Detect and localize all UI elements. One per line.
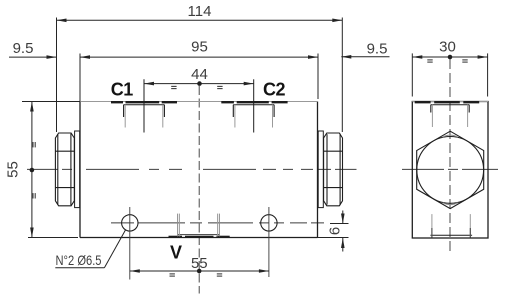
equal mark right [217, 274, 222, 276]
block top surface line [80, 101, 318, 103]
horizontal centerline bottom holes [111, 222, 327, 224]
svg-text:114: 114 [188, 3, 212, 20]
bottom hole right vertical centerline [268, 207, 270, 277]
right hex fitting [324, 133, 343, 206]
vertical centerline block front [198, 86, 200, 294]
side view top port [415, 102, 480, 127]
dimension 9.5 left [9, 40, 57, 59]
bottom hole left vertical centerline [129, 207, 131, 280]
hexagon chamfer arc top [443, 135, 458, 137]
dimension 30 [412, 39, 487, 97]
horizontal centerline side view [402, 168, 498, 170]
svg-text:N°2 Ø6.5: N°2 Ø6.5 [56, 252, 102, 268]
svg-text:C2: C2 [263, 79, 285, 99]
dimension 95 [80, 39, 318, 102]
side view hexagon [417, 131, 484, 208]
equal mark top (rotated) [33, 142, 35, 147]
left washer [75, 131, 80, 208]
dimension 44 [144, 66, 254, 89]
port C1 [111, 79, 177, 132]
dimension 55 bottom [130, 255, 269, 276]
equal mark left [170, 274, 175, 276]
dimension 55 left vertical [5, 102, 81, 238]
equal mark bottom (rotated) [33, 193, 35, 198]
svg-text:9.5: 9.5 [367, 41, 388, 58]
right washer [318, 131, 323, 208]
equal mark right [217, 86, 222, 88]
port V bottom [169, 214, 230, 237]
svg-text:95: 95 [191, 39, 208, 56]
svg-text:44: 44 [191, 66, 208, 83]
svg-text:V: V [170, 243, 182, 263]
svg-text:55: 55 [191, 255, 208, 272]
equal mark left [427, 60, 432, 62]
vertical centerline side view [449, 59, 451, 252]
side view box [412, 102, 488, 239]
equal mark left [171, 86, 176, 88]
bottom hole right [261, 215, 277, 231]
svg-text:C1: C1 [111, 79, 133, 99]
dimension 6 right [327, 211, 349, 252]
side view circle [417, 137, 484, 204]
side view top surface grey [412, 101, 488, 103]
svg-text:9.5: 9.5 [13, 40, 34, 57]
horizontal centerline front view [27, 168, 357, 170]
bottom edge extension for 6 dim [318, 237, 349, 239]
bottom hole left [122, 215, 138, 231]
side view bottom port [430, 214, 472, 237]
dimension 114 [57, 3, 343, 132]
svg-text:6: 6 [327, 227, 344, 235]
block body front view [80, 102, 318, 238]
dimension 9.5 right [341, 41, 389, 59]
leader N°2 Ø6.5 [55, 230, 125, 268]
hexagon chamfer arc bottom [443, 203, 458, 205]
port C2 [221, 79, 287, 132]
equal mark right [462, 60, 467, 62]
svg-text:55: 55 [5, 161, 22, 178]
svg-text:30: 30 [439, 39, 456, 56]
left hex fitting [55, 133, 74, 206]
